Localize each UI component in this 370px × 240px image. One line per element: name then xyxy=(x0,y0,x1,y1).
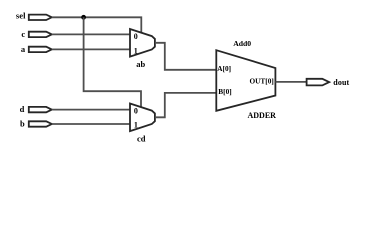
svg-text:Add0: Add0 xyxy=(233,39,251,48)
svg-text:A[0]: A[0] xyxy=(217,64,231,73)
input port a xyxy=(29,47,52,52)
input port b xyxy=(29,121,52,126)
svg-text:0: 0 xyxy=(134,32,138,41)
mux ab xyxy=(130,29,155,57)
wire adder OUT[0] to dout xyxy=(275,81,306,83)
svg-text:c: c xyxy=(21,29,25,39)
mux cd xyxy=(130,104,155,132)
wire c to mux ab input 0 xyxy=(52,33,130,35)
svg-text:cd: cd xyxy=(137,133,146,143)
wire d to mux cd input 0 xyxy=(52,109,130,111)
input port c xyxy=(29,32,52,37)
svg-text:a: a xyxy=(21,44,26,54)
adder U Add0 xyxy=(216,50,275,111)
svg-text:1: 1 xyxy=(134,46,138,55)
junction dot on sel net xyxy=(81,15,86,20)
svg-text:0: 0 xyxy=(134,106,138,115)
wire mux ab output to adder A[0] xyxy=(155,43,216,70)
input port sel xyxy=(29,15,52,20)
svg-text:ab: ab xyxy=(136,59,145,69)
wire a to mux ab input 1 xyxy=(52,48,130,50)
svg-text:1: 1 xyxy=(134,121,138,130)
svg-text:sel: sel xyxy=(16,11,26,21)
svg-text:ADDER: ADDER xyxy=(248,111,277,120)
input port d xyxy=(29,107,52,112)
wire sel branch to mux cd select pin xyxy=(84,17,141,107)
svg-text:b: b xyxy=(20,118,25,128)
wire mux cd output to adder B[0] xyxy=(155,93,216,117)
wire b to mux cd input 1 xyxy=(52,123,130,125)
svg-text:dout: dout xyxy=(333,78,349,87)
svg-text:d: d xyxy=(20,104,25,114)
wire sel to mux ab select pin xyxy=(52,17,142,33)
output port dout xyxy=(307,79,330,86)
svg-text:B[0]: B[0] xyxy=(218,87,231,96)
svg-text:OUT[0]: OUT[0] xyxy=(249,76,273,85)
